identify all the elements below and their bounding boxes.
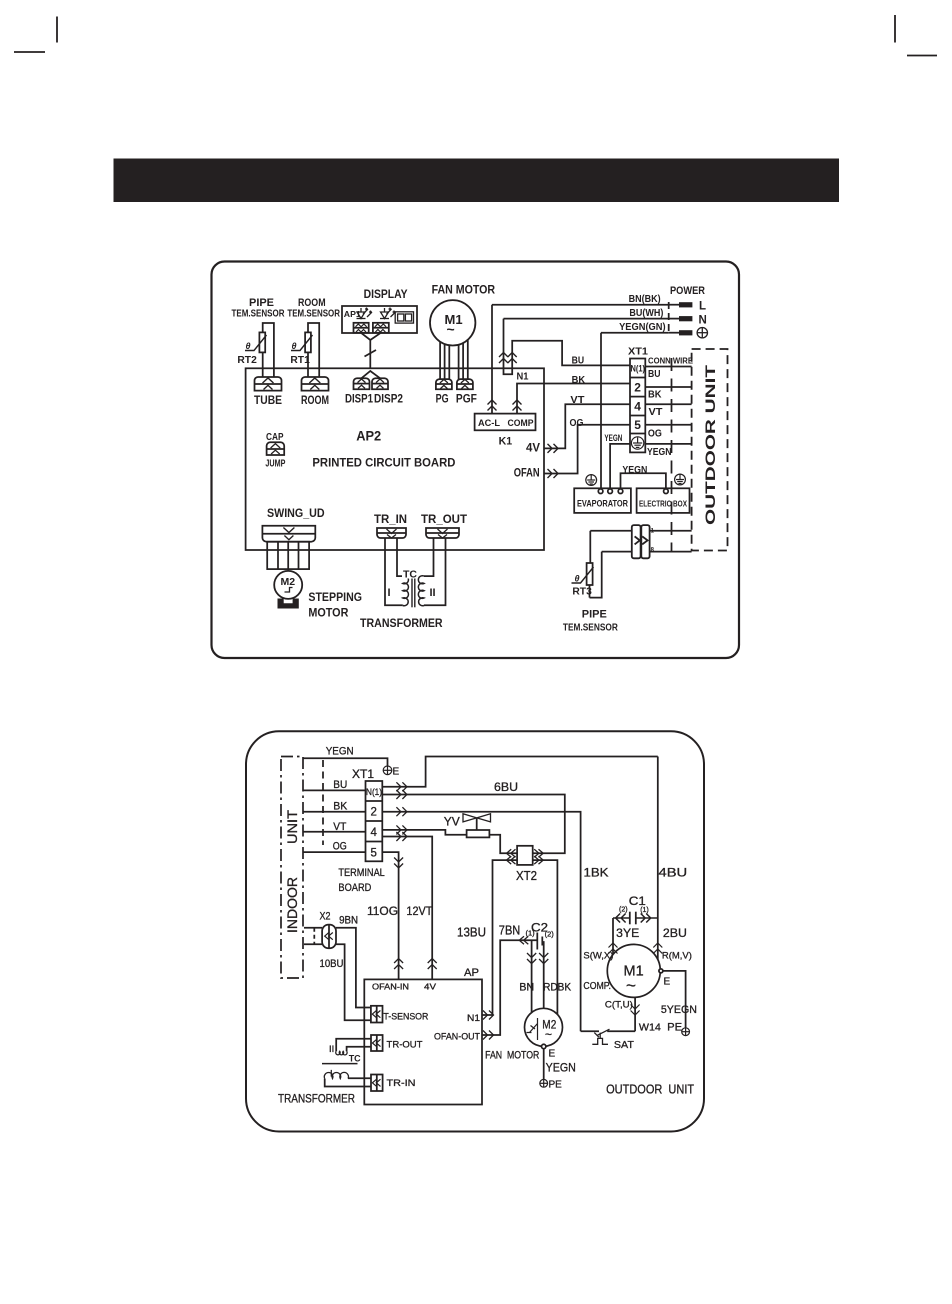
svg-text:2BU: 2BU xyxy=(663,926,687,940)
C1 left wire chevrons xyxy=(613,914,630,923)
chevrons row2 xyxy=(396,807,407,816)
svg-text:E: E xyxy=(393,767,400,778)
svg-text:PE: PE xyxy=(549,1080,563,1091)
ground symbol right xyxy=(675,474,686,485)
wire OG xyxy=(303,851,366,853)
crop mark top-right vertical xyxy=(894,15,896,43)
svg-text:TEM.SENSOR: TEM.SENSOR xyxy=(232,309,286,320)
wire row4 lower 12VT xyxy=(382,837,432,980)
svg-text:JUMP: JUMP xyxy=(265,459,285,470)
svg-text:TR-OUT: TR-OUT xyxy=(387,1040,423,1051)
svg-text:TUBE: TUBE xyxy=(254,395,282,407)
svg-text:AP2: AP2 xyxy=(356,428,381,444)
electric box pin xyxy=(664,489,669,494)
svg-text:OFAN-IN: OFAN-IN xyxy=(372,982,409,992)
wire power earth down to evaporator xyxy=(600,333,602,489)
svg-text:TEM.SENSOR: TEM.SENSOR xyxy=(287,309,340,320)
svg-text:9BN: 9BN xyxy=(339,915,358,927)
thermistor RT2 xyxy=(259,332,265,352)
connector PGF xyxy=(457,379,473,389)
transformer coil I xyxy=(324,1072,348,1078)
svg-text:5: 5 xyxy=(371,848,377,860)
svg-text:AP: AP xyxy=(464,967,479,979)
power stub L xyxy=(669,304,679,306)
stepping motor base xyxy=(278,599,299,609)
svg-text:COMP.: COMP. xyxy=(583,980,611,992)
svg-text:COMP: COMP xyxy=(508,418,535,429)
svg-text:PIPE: PIPE xyxy=(249,297,274,309)
connector TR_IN xyxy=(377,528,406,538)
svg-text:(2): (2) xyxy=(545,930,555,939)
arrows 11OG into AP xyxy=(394,959,403,970)
diagram 2 border xyxy=(246,731,704,1131)
terminal board XT1 xyxy=(366,781,383,861)
svg-text:5YEGN: 5YEGN xyxy=(661,1004,697,1016)
svg-text:(1): (1) xyxy=(640,907,649,914)
connector TR_OUT xyxy=(426,528,459,538)
C1 right wire chevrons xyxy=(636,914,658,923)
wire break slash xyxy=(365,350,377,357)
svg-text:4: 4 xyxy=(371,827,378,839)
arrows 12VT into AP xyxy=(428,959,437,970)
svg-text:BU(WH): BU(WH) xyxy=(629,307,663,319)
connector XT2 xyxy=(517,846,533,865)
wire row1 lower 6BU xyxy=(382,795,565,854)
svg-text:OFAN: OFAN xyxy=(514,468,540,480)
svg-text:TC: TC xyxy=(349,1054,361,1065)
wire TR-IN to coil I xyxy=(348,1077,371,1079)
connector TR-IN xyxy=(371,1075,383,1092)
evaporator box xyxy=(574,488,631,513)
black header bar xyxy=(114,159,840,203)
svg-text:PRINTED CIRCUIT BOARD: PRINTED CIRCUIT BOARD xyxy=(312,456,455,470)
wires plug right xyxy=(649,530,691,532)
chevrons row4 lower xyxy=(396,832,407,841)
wire BN branch down xyxy=(531,940,533,1012)
wire sensor RT2 loop xyxy=(263,323,274,377)
C2 left chevrons xyxy=(519,936,528,944)
svg-text:BU: BU xyxy=(333,779,347,791)
svg-text:L: L xyxy=(699,301,706,313)
svg-text:N(1): N(1) xyxy=(631,364,646,374)
wire E to PE xyxy=(663,971,686,1028)
connector SWING_UD xyxy=(262,526,315,542)
M1 E pin xyxy=(659,969,663,973)
svg-text:II: II xyxy=(329,1044,334,1055)
svg-text:1BK: 1BK xyxy=(584,866,609,880)
svg-text:YEGN(GN): YEGN(GN) xyxy=(619,321,666,333)
wires XT1 to outdoor unit xyxy=(645,366,691,368)
svg-text:FAN MOTOR: FAN MOTOR xyxy=(432,282,496,296)
wire row2 1BK xyxy=(382,812,580,1032)
svg-text:EVAPORATOR: EVAPORATOR xyxy=(577,499,628,509)
wire 4V to XT1 row4 xyxy=(544,404,630,448)
svg-text:OG: OG xyxy=(648,427,662,439)
arrows 11OG down xyxy=(394,858,403,869)
transformer core TC xyxy=(322,1063,358,1065)
connector X2 xyxy=(322,925,336,949)
svg-text:VT: VT xyxy=(570,394,585,406)
display connector DISP1 plug xyxy=(354,323,369,333)
svg-text:7BN: 7BN xyxy=(499,923,521,938)
chevrons row1 lower xyxy=(396,790,407,799)
fan motor M2 xyxy=(525,1008,563,1046)
wire power L xyxy=(492,304,669,306)
ground symbol left xyxy=(586,475,597,486)
stepping motor wire bundle xyxy=(267,542,309,569)
arrows R up xyxy=(653,943,662,954)
display connector DISP2 plug xyxy=(373,323,389,333)
svg-text:12VT: 12VT xyxy=(406,904,433,918)
svg-text:(2): (2) xyxy=(619,907,628,914)
wire YEGN evaporator to electric box xyxy=(621,473,666,489)
electric box xyxy=(637,488,690,513)
svg-text:11OG: 11OG xyxy=(367,904,398,918)
wire row5 11OG xyxy=(382,852,398,979)
svg-text:SAT: SAT xyxy=(614,1039,635,1051)
svg-text:4V: 4V xyxy=(424,982,436,992)
wire XT2 right to BK down xyxy=(533,860,558,1014)
svg-text:TR_IN: TR_IN xyxy=(374,512,407,526)
svg-text:TR-IN: TR-IN xyxy=(387,1078,416,1089)
svg-text:2: 2 xyxy=(371,807,377,819)
connector PG xyxy=(436,379,452,389)
earth terminal symbol xyxy=(697,328,707,338)
svg-text:2: 2 xyxy=(634,381,641,395)
power stub N xyxy=(669,318,679,320)
wire power earth xyxy=(601,332,669,334)
wire fork to DISP1 DISP2 xyxy=(362,371,381,378)
svg-text:PE: PE xyxy=(667,1022,682,1034)
wire TR_IN to transformer primary xyxy=(385,538,403,605)
connector JUMP xyxy=(267,442,285,455)
connector T-SENSOR xyxy=(371,1006,383,1023)
svg-text:BK: BK xyxy=(333,801,348,813)
indoor unit dash-dot box xyxy=(281,757,303,979)
M2 thermal protector symbol xyxy=(527,1018,538,1040)
seven segment display xyxy=(395,312,413,323)
svg-text:N1: N1 xyxy=(467,1013,480,1024)
diagram 1 border xyxy=(212,262,740,659)
LED D2 xyxy=(380,308,396,319)
svg-text:ELECTRIC BOX: ELECTRIC BOX xyxy=(639,499,687,509)
svg-text:DISP2: DISP2 xyxy=(374,394,403,406)
svg-text:PG: PG xyxy=(436,394,449,406)
svg-text:XT1: XT1 xyxy=(352,769,374,781)
svg-text:OUTDOOR UNIT: OUTDOOR UNIT xyxy=(703,364,718,525)
crop mark top-left vertical xyxy=(56,17,58,43)
svg-text:10BU: 10BU xyxy=(320,958,344,970)
overload protector SAT xyxy=(592,1029,609,1044)
svg-text:TRANSFORMER: TRANSFORMER xyxy=(278,1094,355,1106)
wire TR_OUT to transformer secondary xyxy=(424,538,434,576)
XT2 right chevrons xyxy=(534,849,543,857)
AP control board box xyxy=(364,979,482,1104)
ground PE M1 xyxy=(682,1028,690,1036)
wire 3YE left down to M1 S xyxy=(612,918,614,955)
svg-text:BK: BK xyxy=(572,374,586,386)
svg-text:I: I xyxy=(388,587,391,599)
wire BK from K1 COMP to XT1 xyxy=(517,384,630,414)
svg-text:UNIT: UNIT xyxy=(285,810,300,844)
fan motor M1 xyxy=(430,300,475,345)
svg-text:E: E xyxy=(664,977,671,988)
4V arrows xyxy=(548,444,559,453)
wires plug left xyxy=(590,530,631,532)
wires M1 to PG xyxy=(439,342,441,379)
svg-text:R(M,V): R(M,V) xyxy=(662,951,692,962)
crop mark top-left horizontal xyxy=(14,51,45,53)
arrow into K1 AC-L xyxy=(488,400,497,411)
svg-text:N: N xyxy=(699,315,707,327)
wire BK xyxy=(303,811,366,813)
arrows S up xyxy=(609,943,618,954)
terminal block XT1 xyxy=(630,359,645,453)
svg-text:RT3: RT3 xyxy=(572,586,592,597)
svg-text:INDOOR: INDOOR xyxy=(285,877,300,933)
connector DISP2 xyxy=(372,378,388,389)
svg-text:DISPLAY: DISPLAY xyxy=(364,287,408,301)
svg-text:~: ~ xyxy=(447,321,455,337)
arrows BN RD down xyxy=(527,953,536,964)
YV coil box xyxy=(467,830,490,837)
svg-text:VT: VT xyxy=(649,406,664,418)
svg-text:E: E xyxy=(549,1049,556,1060)
svg-text:~: ~ xyxy=(545,1028,552,1042)
wire M1 C down xyxy=(634,997,636,1031)
transformer secondary coil II xyxy=(418,576,424,606)
PCB AP2 board outline xyxy=(246,368,544,550)
svg-text:(1): (1) xyxy=(526,929,536,938)
svg-text:BU: BU xyxy=(572,355,585,367)
svg-text:4BU: 4BU xyxy=(659,866,688,880)
svg-text:I: I xyxy=(330,1069,333,1080)
dashed boundary left of XT1 xyxy=(322,760,324,845)
svg-text:MOTOR: MOTOR xyxy=(308,606,348,620)
svg-text:XT1: XT1 xyxy=(628,345,648,357)
arrows C down xyxy=(631,1005,640,1016)
svg-text:N1: N1 xyxy=(517,371,529,382)
M2 E pin xyxy=(542,1044,546,1048)
wires into X2 xyxy=(304,927,322,929)
connector TUBE xyxy=(255,377,282,391)
svg-text:K1: K1 xyxy=(499,436,512,448)
compressor M1 xyxy=(607,944,660,997)
svg-text:YEGN: YEGN xyxy=(604,433,622,443)
wire OFAN-OUT to 7BN xyxy=(482,940,537,1035)
svg-text:YEGN: YEGN xyxy=(326,746,354,758)
thermistor RT3 xyxy=(589,531,591,563)
wire N plug N1 xyxy=(504,319,631,375)
ground PE M2 xyxy=(540,1079,548,1087)
chevrons row1 upper xyxy=(396,782,407,791)
LED D1 xyxy=(357,308,373,319)
wire 9BN xyxy=(336,928,371,1008)
svg-text:OFAN-OUT: OFAN-OUT xyxy=(434,1032,480,1043)
svg-text:8: 8 xyxy=(651,548,655,554)
svg-text:M2: M2 xyxy=(281,576,296,588)
svg-text:S(W,X): S(W,X) xyxy=(583,951,613,962)
outdoor unit dashed box xyxy=(692,349,728,551)
svg-text:θ: θ xyxy=(246,341,251,351)
connector ROOM xyxy=(302,377,329,391)
svg-text:RT2: RT2 xyxy=(237,355,257,366)
svg-text:TC: TC xyxy=(403,569,417,581)
svg-text:YEGN: YEGN xyxy=(622,464,647,476)
svg-text:4V: 4V xyxy=(526,443,540,455)
svg-text:θ: θ xyxy=(292,341,297,351)
svg-text:OG: OG xyxy=(570,417,584,429)
svg-text:T-SENSOR: T-SENSOR xyxy=(383,1012,428,1023)
wire row1 upper to top 4BU run xyxy=(382,757,658,787)
connector TR-OUT xyxy=(371,1035,383,1051)
chevrons row4 upper xyxy=(396,825,407,834)
connector DISP1 xyxy=(354,378,370,389)
wires M1 to PGF xyxy=(458,345,460,379)
crop mark top-right horizontal xyxy=(907,55,937,57)
svg-text:TERMINAL: TERMINAL xyxy=(338,867,384,879)
svg-text:TRANSFORMER: TRANSFORMER xyxy=(360,616,443,630)
wire YEGN XT1 to evaporator xyxy=(610,444,630,489)
pipe sensor plug connector xyxy=(632,525,655,558)
XT2 left chevrons xyxy=(507,849,516,857)
svg-text:BN(BK): BN(BK) xyxy=(629,293,661,305)
svg-text:YV: YV xyxy=(444,815,460,829)
N1 plug chevrons xyxy=(499,353,508,364)
svg-text:STEPPING: STEPPING xyxy=(308,590,362,604)
OFAN arrows xyxy=(548,469,559,478)
wire row4 upper to YV xyxy=(382,830,466,835)
wire display to PCB xyxy=(361,333,381,369)
wire 10BU xyxy=(336,944,371,1020)
svg-text:YEGN: YEGN xyxy=(546,1060,576,1074)
svg-text:YEGN: YEGN xyxy=(647,446,672,458)
evaporator pins xyxy=(598,489,603,494)
svg-text:3YE: 3YE xyxy=(616,926,639,940)
svg-text:N(1): N(1) xyxy=(366,787,382,798)
svg-text:~: ~ xyxy=(626,976,636,995)
arrow into K1 COMP xyxy=(513,400,522,411)
earth symbol in XT1 xyxy=(631,437,643,449)
svg-text:RT1: RT1 xyxy=(290,355,310,366)
svg-text:II: II xyxy=(430,587,436,599)
wire YV coil to XT2 xyxy=(489,835,517,854)
svg-text:FAN MOTOR: FAN MOTOR xyxy=(485,1050,539,1062)
svg-text:OUTDOOR UNIT: OUTDOOR UNIT xyxy=(606,1083,694,1097)
svg-text:SWING_UD: SWING_UD xyxy=(267,506,325,520)
svg-text:ROOM: ROOM xyxy=(298,297,326,309)
relay K1 xyxy=(475,414,536,431)
transformer coil II xyxy=(336,1051,347,1055)
svg-text:θ: θ xyxy=(575,574,580,584)
svg-text:POWER: POWER xyxy=(670,285,705,297)
ground symbol E xyxy=(383,766,392,775)
svg-text:5: 5 xyxy=(634,418,641,432)
svg-text:TEM.SENSOR: TEM.SENSOR xyxy=(563,623,619,634)
transformer primary coil I xyxy=(403,576,409,606)
svg-text:RDBK: RDBK xyxy=(543,982,572,994)
stepping motor M2 xyxy=(274,571,302,599)
dashed boundary at power xyxy=(668,302,670,335)
wire 4BU down to M1 R xyxy=(657,757,659,960)
svg-text:6BU: 6BU xyxy=(494,780,518,794)
wire bottom to SAT xyxy=(581,1030,599,1032)
svg-text:C(T,U): C(T,U) xyxy=(605,1000,633,1011)
svg-text:XT2: XT2 xyxy=(516,868,537,883)
svg-text:X2: X2 xyxy=(320,911,331,923)
thermistor RT1 xyxy=(305,332,311,352)
svg-text:4: 4 xyxy=(634,400,641,414)
svg-text:PIPE: PIPE xyxy=(582,609,607,621)
svg-text:BU: BU xyxy=(648,368,661,380)
wire M2 to PE xyxy=(543,1049,545,1080)
svg-text:ROOM: ROOM xyxy=(301,395,329,407)
power stub earth xyxy=(669,332,679,334)
wire N1 to XT2 left leg xyxy=(482,860,517,1015)
svg-text:DISP1: DISP1 xyxy=(345,394,373,406)
svg-text:CAP: CAP xyxy=(266,432,284,443)
wire power N xyxy=(504,318,669,320)
transformer core xyxy=(411,569,413,607)
svg-text:BN: BN xyxy=(519,982,534,994)
wire C2 right to RD xyxy=(542,942,543,1009)
svg-text:VT: VT xyxy=(333,821,346,833)
wire BU xyxy=(303,789,366,791)
wire YEGN to ground E xyxy=(303,758,388,766)
wire sensor RT1 loop xyxy=(308,323,319,377)
wire TR-OUT to coil II xyxy=(336,1039,371,1052)
svg-text:W14: W14 xyxy=(639,1022,661,1034)
dashed boundary line xyxy=(671,358,673,552)
svg-text:BK: BK xyxy=(648,388,662,400)
svg-text:13BU: 13BU xyxy=(457,925,486,940)
svg-text:AC-L: AC-L xyxy=(478,418,500,429)
svg-text:TR_OUT: TR_OUT xyxy=(421,512,468,526)
display unit AP1 box xyxy=(342,306,417,333)
wire OFAN to XT1 row5 xyxy=(544,425,630,474)
svg-text:PGF: PGF xyxy=(456,394,477,406)
svg-text:OG: OG xyxy=(333,841,347,853)
wire L down to K1 xyxy=(491,305,493,414)
wire VT xyxy=(303,831,366,833)
svg-text:BOARD: BOARD xyxy=(338,882,371,894)
